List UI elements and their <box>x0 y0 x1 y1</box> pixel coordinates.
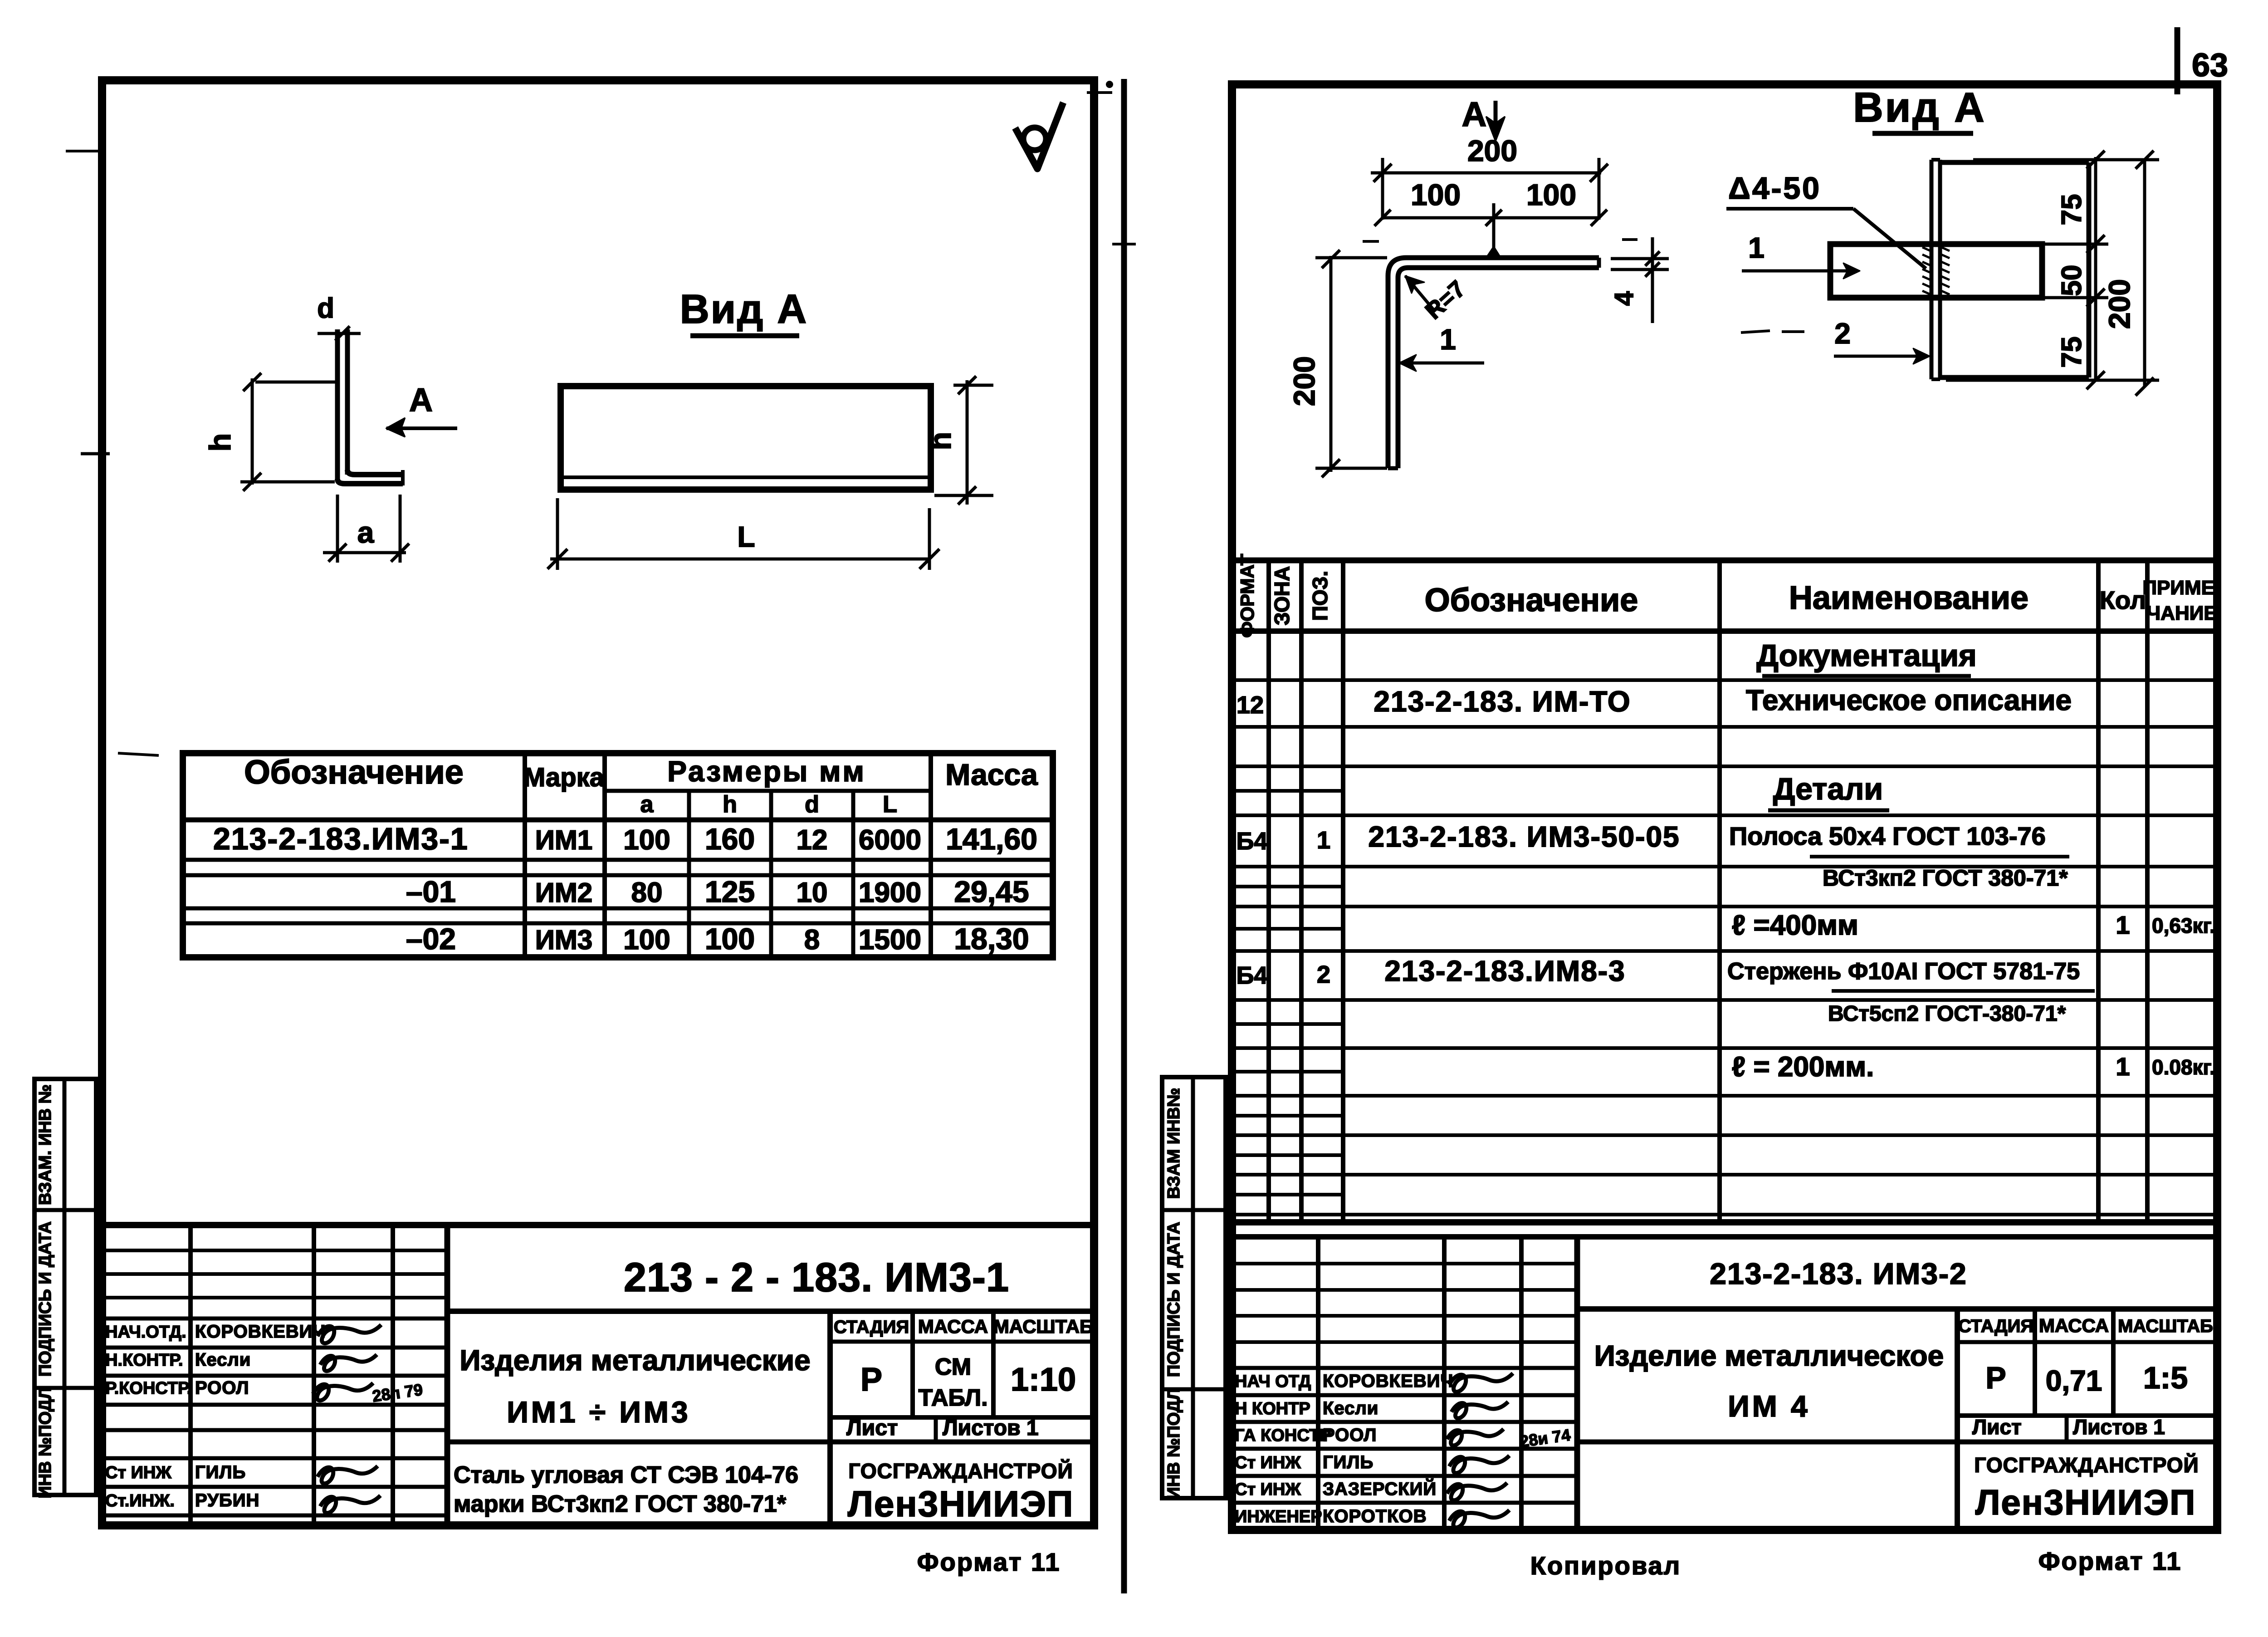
svg-text:Детали: Детали <box>1773 772 1883 806</box>
svg-text:Ст ИНЖ: Ст ИНЖ <box>105 1463 171 1482</box>
svg-text:0,71: 0,71 <box>2046 1364 2102 1397</box>
svg-text:ГОСГРАЖДАНСТРОЙ: ГОСГРАЖДАНСТРОЙ <box>1974 1453 2199 1477</box>
svg-text:КОРОВКЕВИЧ: КОРОВКЕВИЧ <box>195 1322 326 1342</box>
svg-text:213-2-183. ИМ3-2: 213-2-183. ИМ3-2 <box>1710 1257 1967 1290</box>
svg-text:h: h <box>203 433 237 451</box>
svg-text:ТАБЛ.: ТАБЛ. <box>918 1385 987 1411</box>
svg-text:100: 100 <box>623 824 670 856</box>
svg-text:Масса: Масса <box>945 758 1038 791</box>
svg-text:Р: Р <box>1985 1361 2006 1395</box>
svg-text:ИНЖЕНЕР: ИНЖЕНЕР <box>1235 1507 1322 1526</box>
svg-text:1:5: 1:5 <box>2143 1361 2188 1395</box>
svg-text:МАСШТАБ: МАСШТАБ <box>993 1316 1093 1337</box>
svg-text:НАЧ.ОТД.: НАЧ.ОТД. <box>105 1323 186 1342</box>
svg-text:ИМ2: ИМ2 <box>535 877 592 908</box>
svg-text:Формат 11: Формат 11 <box>917 1548 1061 1576</box>
svg-text:Кесли: Кесли <box>195 1350 251 1370</box>
svg-text:КОРОТКОВ: КОРОТКОВ <box>1323 1506 1427 1526</box>
svg-text:0.08кг.: 0.08кг. <box>2152 1055 2215 1079</box>
svg-text:100: 100 <box>623 924 670 956</box>
svg-text:Лен3НИИЭП: Лен3НИИЭП <box>1975 1482 2196 1522</box>
svg-text:ЗАЗЕРСКИЙ: ЗАЗЕРСКИЙ <box>1323 1478 1437 1499</box>
svg-text:Лист: Лист <box>846 1416 898 1440</box>
svg-text:141,60: 141,60 <box>946 822 1037 856</box>
svg-text:Изделия металлические: Изделия металлические <box>459 1344 810 1377</box>
svg-text:6000: 6000 <box>859 824 921 856</box>
svg-text:10: 10 <box>797 877 828 908</box>
svg-text:200: 200 <box>1287 356 1321 406</box>
svg-text:Вид А: Вид А <box>680 287 808 332</box>
svg-text:1: 1 <box>2116 1052 2130 1081</box>
svg-text:Ст.ИНЖ.: Ст.ИНЖ. <box>105 1491 175 1510</box>
svg-text:213-2-183. ИМ-ТО: 213-2-183. ИМ-ТО <box>1374 685 1631 718</box>
svg-text:ПРИМЕ-: ПРИМЕ- <box>2142 577 2221 599</box>
svg-text:–02: –02 <box>406 922 456 956</box>
svg-text:100: 100 <box>1411 178 1461 211</box>
svg-text:ИНВ №ПОДЛ: ИНВ №ПОДЛ <box>36 1387 55 1498</box>
svg-text:Документация: Документация <box>1756 638 1976 673</box>
svg-text:a: a <box>640 791 654 818</box>
svg-text:2: 2 <box>1834 317 1851 350</box>
svg-text:12: 12 <box>1237 691 1264 719</box>
svg-text:МАССА: МАССА <box>918 1316 988 1337</box>
svg-text:4: 4 <box>1609 291 1639 306</box>
svg-text:Полоса 50х4 ГОСТ 103-76: Полоса 50х4 ГОСТ 103-76 <box>1729 822 2046 850</box>
svg-text:Листов 1: Листов 1 <box>943 1416 1039 1440</box>
svg-text:a: a <box>357 515 375 549</box>
svg-text:18,30: 18,30 <box>954 922 1029 956</box>
svg-text:1500: 1500 <box>859 924 921 956</box>
svg-text:Размеры мм: Размеры мм <box>667 755 866 788</box>
svg-text:Обозначение: Обозначение <box>1425 582 1638 618</box>
svg-text:160: 160 <box>705 822 755 856</box>
svg-text:ИНВ №ПОДЛ: ИНВ №ПОДЛ <box>1164 1388 1183 1499</box>
svg-text:100: 100 <box>1526 178 1576 211</box>
svg-text:Стержень Ф10АI ГОСТ 5781-75: Стержень Ф10АI ГОСТ 5781-75 <box>1727 958 2080 985</box>
svg-text:ВЗАМ ИНВ№: ВЗАМ ИНВ№ <box>1164 1088 1183 1199</box>
svg-text:Лен3НИИЭП: Лен3НИИЭП <box>848 1484 1074 1524</box>
svg-text:1: 1 <box>1440 323 1456 356</box>
svg-text:2: 2 <box>1317 961 1330 988</box>
svg-text:ЗОНА: ЗОНА <box>1270 566 1294 625</box>
svg-text:Лист: Лист <box>1972 1415 2022 1439</box>
svg-text:ИМ1 ÷ ИМ3: ИМ1 ÷ ИМ3 <box>507 1395 690 1429</box>
svg-text:Ст ИНЖ: Ст ИНЖ <box>1235 1480 1301 1499</box>
svg-text:РУБИН: РУБИН <box>195 1490 259 1510</box>
svg-text:Б4: Б4 <box>1237 962 1268 989</box>
svg-text:1: 1 <box>2116 911 2130 939</box>
svg-text:ГОСГРАЖДАНСТРОЙ: ГОСГРАЖДАНСТРОЙ <box>848 1459 1073 1483</box>
svg-text:Обозначение: Обозначение <box>244 753 464 791</box>
svg-text:50: 50 <box>2056 265 2087 296</box>
svg-text:Н КОНТР: Н КОНТР <box>1235 1399 1310 1418</box>
svg-text:Вид А: Вид А <box>1853 84 1986 131</box>
svg-text:КОРОВКЕВИЧ: КОРОВКЕВИЧ <box>1323 1371 1454 1391</box>
svg-text:А: А <box>1462 95 1487 134</box>
svg-text:ℓ =400мм: ℓ =400мм <box>1732 910 1858 941</box>
svg-text:d: d <box>317 293 334 324</box>
svg-text:213-2-183.ИМ3-1: 213-2-183.ИМ3-1 <box>213 822 469 856</box>
svg-text:1:10: 1:10 <box>1011 1362 1076 1398</box>
svg-text:СМ: СМ <box>935 1354 971 1380</box>
svg-text:75: 75 <box>2056 337 2087 368</box>
svg-text:Кесли: Кесли <box>1323 1398 1378 1418</box>
svg-text:8: 8 <box>804 924 820 956</box>
svg-text:213 - 2 - 183. ИМ3-1: 213 - 2 - 183. ИМ3-1 <box>624 1255 1009 1300</box>
svg-text:–01: –01 <box>406 875 456 908</box>
svg-text:ПОДПИСЬ И ДАТА: ПОДПИСЬ И ДАТА <box>1164 1222 1183 1377</box>
svg-text:ЧАНИЕ: ЧАНИЕ <box>2146 602 2217 624</box>
svg-text:75: 75 <box>2056 194 2087 225</box>
svg-text:ПОЗ.: ПОЗ. <box>1308 571 1332 621</box>
svg-text:L: L <box>737 520 755 553</box>
svg-text:1900: 1900 <box>859 877 921 908</box>
svg-text:Наименование: Наименование <box>1789 580 2028 616</box>
svg-text:Кол: Кол <box>2100 586 2146 614</box>
svg-text:Н.КОНТР.: Н.КОНТР. <box>105 1351 183 1370</box>
svg-text:ВЗАМ. ИНВ №: ВЗАМ. ИНВ № <box>36 1084 55 1205</box>
svg-text:Ст ИНЖ: Ст ИНЖ <box>1235 1453 1301 1472</box>
svg-text:200: 200 <box>2102 279 2136 329</box>
svg-text:Изделие металлическое: Изделие металлическое <box>1594 1339 1944 1372</box>
svg-text:СТАДИЯ: СТАДИЯ <box>1958 1316 2033 1336</box>
svg-text:МАССА: МАССА <box>2039 1315 2109 1336</box>
svg-text:1: 1 <box>1317 827 1330 854</box>
svg-text:ФОРМАТ: ФОРМАТ <box>1237 554 1258 637</box>
svg-text:ИМ3: ИМ3 <box>535 925 592 955</box>
svg-text:Копировал: Копировал <box>1530 1551 1681 1580</box>
svg-text:Листов 1: Листов 1 <box>2073 1415 2165 1439</box>
svg-text:1: 1 <box>1748 231 1765 264</box>
svg-text:0,63кг.: 0,63кг. <box>2152 914 2215 937</box>
svg-text:РООЛ: РООЛ <box>195 1378 249 1398</box>
svg-text:Р: Р <box>860 1362 882 1398</box>
svg-text:80: 80 <box>631 877 663 908</box>
svg-text:213-2-183. ИМ3-50-05: 213-2-183. ИМ3-50-05 <box>1368 820 1680 853</box>
svg-text:213-2-183.ИМ8-3: 213-2-183.ИМ8-3 <box>1384 955 1625 987</box>
svg-text:Техническое описание: Техническое описание <box>1746 684 2072 716</box>
svg-text:Марка: Марка <box>523 763 605 792</box>
svg-text:МАСШТАБ: МАСШТАБ <box>2118 1316 2213 1336</box>
svg-text:ИМ1: ИМ1 <box>535 825 592 855</box>
svg-text:200: 200 <box>1467 134 1517 167</box>
svg-text:L: L <box>883 791 897 818</box>
svg-text:ВСт5сп2 ГОСТ-380-71*: ВСт5сп2 ГОСТ-380-71* <box>1828 1002 2066 1026</box>
svg-text:ГИЛЬ: ГИЛЬ <box>195 1462 246 1482</box>
svg-text:h: h <box>924 432 957 450</box>
svg-text:12: 12 <box>797 824 828 856</box>
svg-text:РООЛ: РООЛ <box>1323 1425 1377 1445</box>
svg-text:Сталь угловая СТ СЭВ 104-76: Сталь угловая СТ СЭВ 104-76 <box>454 1462 798 1488</box>
svg-text:63: 63 <box>2192 47 2228 83</box>
svg-text:ВСт3кп2 ГОСТ 380-71*: ВСт3кп2 ГОСТ 380-71* <box>1823 865 2068 891</box>
svg-text:ИМ 4: ИМ 4 <box>1728 1389 1810 1423</box>
svg-text:Б4: Б4 <box>1237 828 1268 855</box>
svg-text:ГИЛЬ: ГИЛЬ <box>1323 1452 1374 1472</box>
svg-text:125: 125 <box>705 875 755 908</box>
svg-text:СТАДИЯ: СТАДИЯ <box>834 1317 909 1337</box>
svg-text:d: d <box>805 791 819 818</box>
svg-text:100: 100 <box>705 922 755 956</box>
svg-text:ℓ = 200мм.: ℓ = 200мм. <box>1732 1051 1874 1083</box>
svg-text:Δ4-50: Δ4-50 <box>1728 171 1821 206</box>
svg-text:ПОДПИСЬ И ДАТА: ПОДПИСЬ И ДАТА <box>36 1221 55 1377</box>
svg-text:A: A <box>409 382 433 418</box>
svg-text:h: h <box>723 791 737 818</box>
svg-text:29,45: 29,45 <box>954 875 1029 908</box>
svg-text:ГА КОНСТР: ГА КОНСТР <box>1235 1426 1331 1445</box>
svg-text:марки ВСт3кп2 ГОСТ 380-71*: марки ВСт3кп2 ГОСТ 380-71* <box>454 1491 787 1517</box>
svg-text:НАЧ ОТД: НАЧ ОТД <box>1235 1372 1311 1391</box>
svg-text:Р.КОНСТР.: Р.КОНСТР. <box>105 1379 191 1398</box>
svg-text:Формат 11: Формат 11 <box>2038 1547 2182 1575</box>
